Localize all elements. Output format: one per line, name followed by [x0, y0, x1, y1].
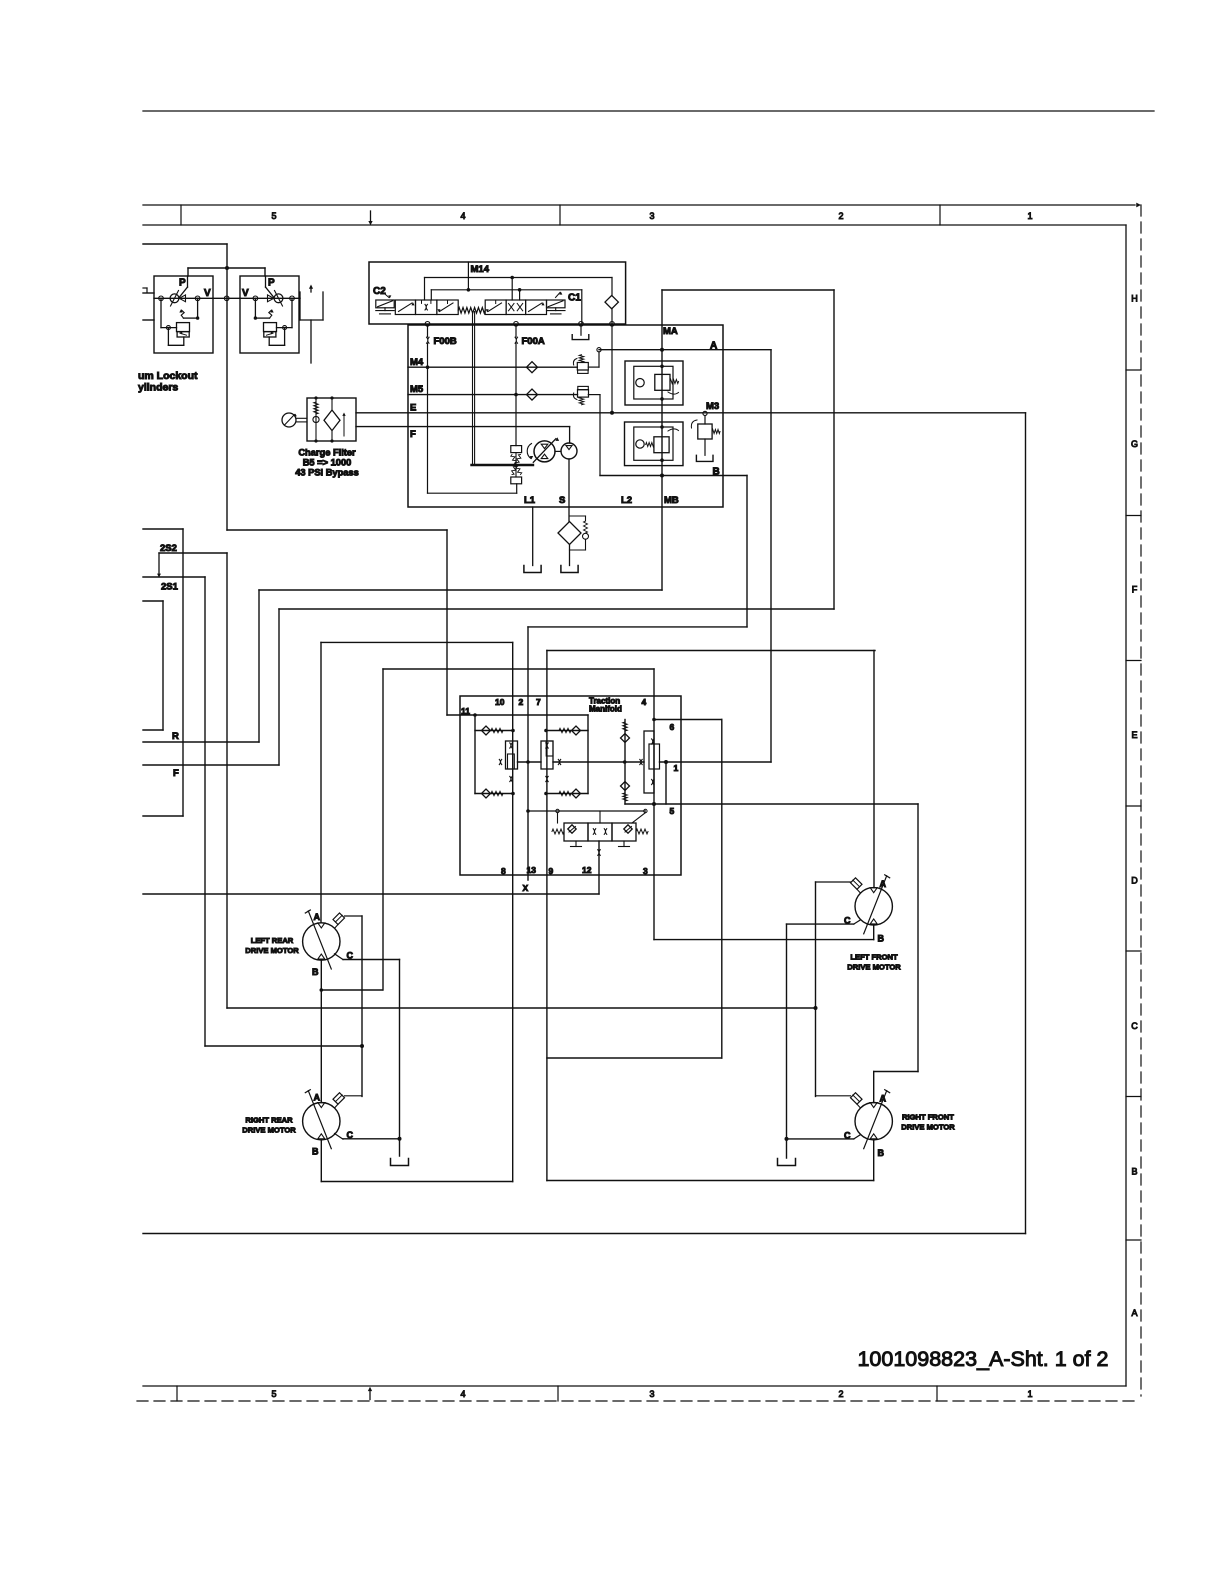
svg-text:X: X [523, 883, 529, 893]
svg-text:B: B [713, 467, 720, 478]
svg-text:B: B [1131, 1167, 1137, 1177]
svg-text:S: S [559, 495, 565, 506]
svg-text:um Lockout: um Lockout [138, 370, 198, 382]
svg-text:A: A [880, 879, 887, 889]
svg-text:A: A [1131, 1308, 1137, 1318]
svg-text:13: 13 [527, 865, 537, 875]
svg-text:V: V [204, 288, 211, 299]
svg-text:V: V [242, 288, 249, 299]
svg-text:F: F [1132, 585, 1138, 595]
svg-text:2: 2 [838, 211, 843, 221]
svg-text:F00A: F00A [522, 336, 545, 347]
svg-text:MA: MA [663, 326, 678, 337]
svg-text:4: 4 [460, 211, 465, 221]
svg-text:DRIVE MOTOR: DRIVE MOTOR [847, 962, 901, 971]
svg-text:B: B [312, 967, 319, 977]
svg-text:43 PSI Bypass: 43 PSI Bypass [295, 468, 359, 478]
svg-text:1: 1 [1027, 1389, 1032, 1399]
svg-text:M14: M14 [471, 264, 490, 275]
svg-text:8: 8 [501, 866, 506, 876]
svg-text:7: 7 [536, 697, 541, 707]
svg-text:L2: L2 [621, 495, 632, 506]
svg-text:B5 => 1000: B5 => 1000 [303, 458, 352, 468]
svg-text:F00B: F00B [434, 336, 457, 347]
svg-text:2S2: 2S2 [160, 543, 177, 554]
svg-text:RIGHT REAR: RIGHT REAR [245, 1116, 293, 1125]
svg-text:DRIVE MOTOR: DRIVE MOTOR [901, 1122, 955, 1131]
svg-text:1001098823_A-Sht. 1 of 2: 1001098823_A-Sht. 1 of 2 [857, 1347, 1108, 1371]
svg-text:Manifold: Manifold [589, 705, 622, 714]
svg-text:B: B [878, 1148, 885, 1158]
svg-text:A: A [314, 912, 321, 922]
svg-text:4: 4 [460, 1389, 465, 1399]
svg-text:R: R [172, 731, 179, 742]
svg-text:P: P [268, 278, 275, 289]
svg-text:5: 5 [670, 806, 675, 816]
svg-text:4: 4 [642, 697, 647, 707]
svg-text:E: E [410, 403, 416, 414]
svg-text:F: F [410, 429, 416, 440]
svg-text:DRIVE MOTOR: DRIVE MOTOR [242, 1125, 296, 1134]
svg-text:2S1: 2S1 [161, 582, 179, 593]
svg-text:E: E [1131, 730, 1137, 740]
svg-text:MB: MB [664, 495, 679, 506]
svg-text:D: D [1131, 876, 1138, 886]
svg-text:M3: M3 [706, 401, 719, 412]
svg-text:1: 1 [1027, 211, 1032, 221]
svg-text:ylinders: ylinders [138, 382, 178, 394]
svg-text:L1: L1 [524, 495, 536, 506]
svg-text:C1: C1 [568, 293, 581, 304]
svg-text:H: H [1131, 294, 1138, 304]
svg-text:M4: M4 [410, 357, 424, 368]
svg-text:F: F [173, 768, 179, 779]
svg-text:G: G [1131, 439, 1138, 449]
svg-text:RIGHT FRONT: RIGHT FRONT [902, 1113, 954, 1122]
svg-text:A: A [314, 1093, 321, 1103]
svg-text:A: A [880, 1094, 887, 1104]
svg-text:6: 6 [670, 722, 675, 732]
svg-text:2: 2 [519, 697, 524, 707]
svg-text:B: B [878, 934, 885, 944]
svg-text:C2: C2 [373, 286, 386, 297]
svg-text:12: 12 [582, 865, 592, 875]
svg-text:A: A [710, 341, 717, 352]
svg-text:2: 2 [838, 1389, 843, 1399]
svg-text:5: 5 [271, 1389, 276, 1399]
svg-text:3: 3 [649, 1389, 654, 1399]
svg-text:B: B [312, 1147, 319, 1157]
svg-text:M5: M5 [410, 384, 424, 395]
svg-text:5: 5 [271, 211, 276, 221]
svg-text:3: 3 [643, 866, 648, 876]
svg-text:LEFT REAR: LEFT REAR [251, 936, 294, 945]
svg-text:P: P [179, 278, 186, 289]
svg-text:3: 3 [649, 211, 654, 221]
svg-text:C: C [1131, 1021, 1138, 1031]
svg-text:LEFT FRONT: LEFT FRONT [850, 953, 898, 962]
svg-text:10: 10 [495, 697, 505, 707]
svg-text:Charge Filter: Charge Filter [298, 448, 356, 458]
svg-text:DRIVE MOTOR: DRIVE MOTOR [245, 946, 299, 955]
svg-text:9: 9 [549, 866, 554, 876]
svg-text:1: 1 [674, 763, 679, 773]
